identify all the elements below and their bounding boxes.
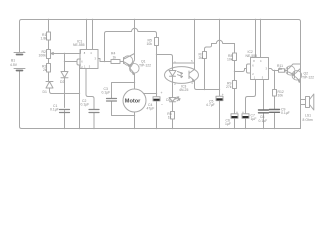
svg-text:8 Ohm: 8 Ohm (303, 118, 313, 122)
svg-text:1µF: 1µF (225, 122, 231, 126)
svg-text:10k: 10k (278, 93, 284, 97)
svg-text:D3: D3 (166, 98, 170, 102)
svg-text:NE-555: NE-555 (246, 54, 258, 58)
svg-text:1k: 1k (279, 67, 283, 71)
svg-text:4.7µF: 4.7µF (206, 103, 215, 107)
svg-text:TIP-122: TIP-122 (139, 64, 151, 68)
svg-text:0.1µF: 0.1µF (50, 108, 59, 112)
svg-text:B1: B1 (11, 59, 15, 63)
svg-text:D2: D2 (60, 80, 64, 84)
svg-text:2M: 2M (199, 56, 204, 60)
svg-text:1k: 1k (113, 56, 117, 60)
svg-text:6: 6 (81, 59, 83, 63)
svg-text:–: – (161, 102, 163, 106)
svg-text:1k: 1k (168, 115, 172, 119)
svg-text:1: 1 (84, 64, 86, 68)
svg-text:TIP-122: TIP-122 (302, 76, 314, 80)
svg-text:4: 4 (260, 59, 262, 63)
svg-text:+: + (161, 91, 163, 95)
svg-text:0.1µF: 0.1µF (81, 103, 90, 107)
svg-text:3: 3 (95, 57, 97, 61)
svg-text:NE-555: NE-555 (73, 43, 85, 47)
svg-text:4N-25: 4N-25 (179, 88, 188, 92)
svg-text:3: 3 (266, 67, 268, 71)
svg-text:1: 1 (254, 75, 256, 79)
svg-text:0.1µF: 0.1µF (281, 111, 290, 115)
svg-text:47µF: 47µF (147, 107, 155, 111)
svg-text:0.1µF: 0.1µF (102, 91, 111, 95)
svg-text:8: 8 (84, 51, 86, 55)
svg-text:LS1: LS1 (305, 113, 311, 117)
svg-text:Motor: Motor (125, 99, 141, 105)
svg-text:5: 5 (89, 64, 91, 68)
svg-text:27k: 27k (226, 85, 232, 89)
svg-text:D1: D1 (43, 90, 47, 94)
svg-text:1.8k: 1.8k (41, 37, 48, 41)
svg-text:0.1µF: 0.1µF (259, 119, 268, 123)
svg-text:8: 8 (253, 59, 255, 63)
svg-text:10k: 10k (227, 57, 233, 61)
svg-text:2: 2 (252, 72, 254, 76)
svg-text:5: 5 (262, 75, 264, 79)
svg-text:1µF: 1µF (251, 117, 257, 121)
svg-text:2k: 2k (43, 68, 47, 72)
svg-text:4.5V: 4.5V (10, 63, 18, 67)
svg-text:+: + (236, 111, 238, 115)
svg-text:4: 4 (90, 51, 92, 55)
svg-text:+: + (222, 93, 224, 97)
svg-text:+: + (242, 111, 244, 115)
svg-text:10k: 10k (147, 42, 153, 46)
svg-text:6: 6 (252, 64, 254, 68)
svg-text:100k: 100k (39, 54, 47, 58)
